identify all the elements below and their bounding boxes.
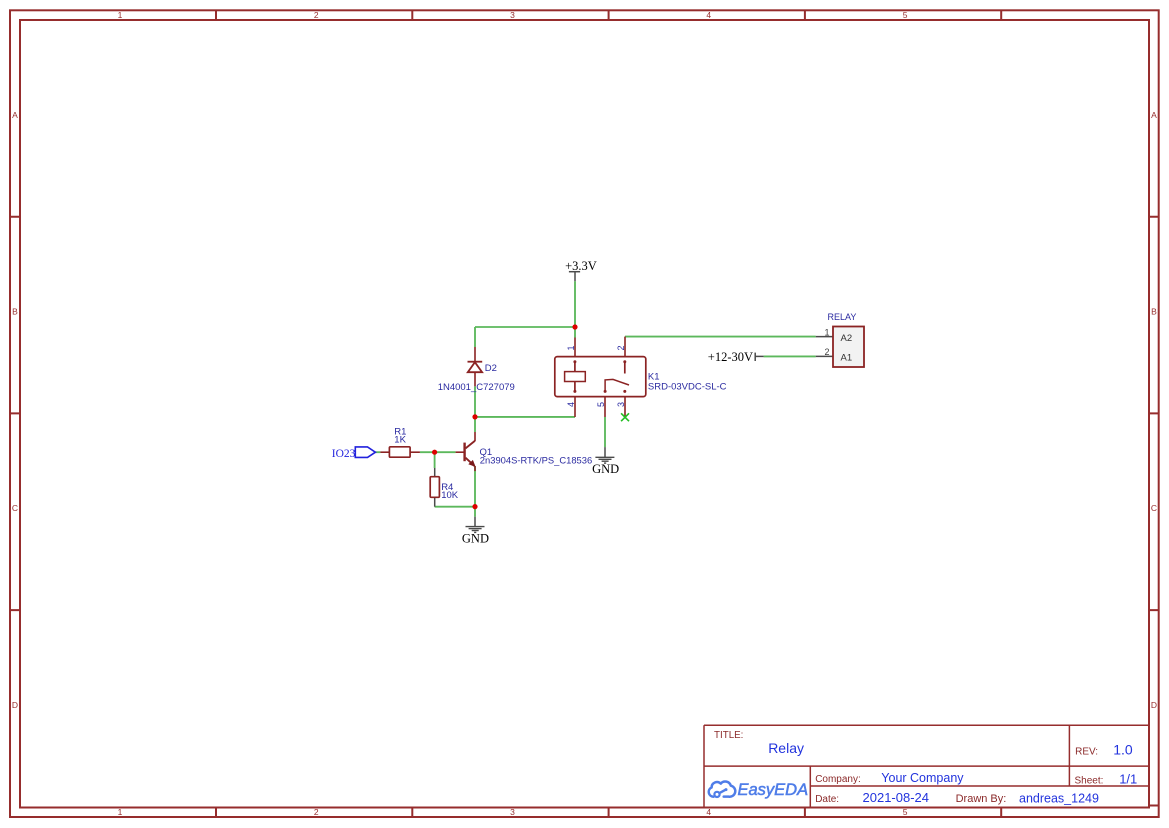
svg-text:2: 2 [824,347,829,357]
svg-text:1: 1 [118,10,123,20]
svg-text:3: 3 [616,402,626,407]
svg-text:1K: 1K [394,435,406,446]
svg-text:2: 2 [314,10,319,20]
svg-text:GND: GND [462,532,489,546]
svg-text:A2: A2 [841,333,853,344]
svg-text:D: D [1151,700,1157,710]
svg-text:A1: A1 [841,353,853,364]
svg-text:1.0: 1.0 [1113,741,1133,757]
svg-text:Date:: Date: [815,794,839,805]
svg-text:4: 4 [566,402,576,407]
svg-text:EasyEDA: EasyEDA [738,781,809,799]
svg-text:5: 5 [596,402,606,407]
svg-text:2021-08-24: 2021-08-24 [863,790,930,805]
svg-text:+12-30V: +12-30V [708,350,753,364]
svg-text:D2: D2 [485,363,497,374]
svg-text:C: C [12,503,18,513]
svg-text:Drawn By:: Drawn By: [956,793,1007,805]
svg-text:4: 4 [706,10,711,20]
svg-text:1N4001_C727079: 1N4001_C727079 [438,382,515,393]
svg-text:TITLE:: TITLE: [714,730,743,741]
svg-text:5: 5 [903,10,908,20]
svg-text:2: 2 [314,807,319,817]
svg-text:2n3904S-RTK/PS_C18536: 2n3904S-RTK/PS_C18536 [480,454,592,465]
svg-text:A: A [1151,110,1157,120]
svg-text:D: D [12,700,18,710]
svg-text:3: 3 [510,10,515,20]
svg-text:10K: 10K [441,490,459,501]
svg-text:IO23: IO23 [332,448,356,460]
svg-text:2: 2 [616,345,626,350]
svg-text:1/1: 1/1 [1119,771,1137,786]
svg-text:1: 1 [566,345,576,350]
svg-text:B: B [12,307,18,317]
svg-text:B: B [1151,307,1157,317]
svg-text:1: 1 [118,807,123,817]
svg-text:C: C [1151,503,1157,513]
svg-text:3: 3 [510,807,515,817]
svg-text:1: 1 [824,327,829,337]
svg-text:A: A [12,110,18,120]
svg-text:SRD-03VDC-SL-C: SRD-03VDC-SL-C [648,382,727,393]
svg-text:5: 5 [903,807,908,817]
svg-text:andreas_1249: andreas_1249 [1019,791,1099,805]
svg-text:Sheet:: Sheet: [1075,776,1104,787]
svg-text:Company:: Company: [815,774,861,785]
svg-text:GND: GND [592,462,619,476]
svg-text:REV:: REV: [1075,747,1098,758]
svg-text:Relay: Relay [768,740,804,756]
svg-text:Your Company: Your Company [881,771,964,785]
svg-text:RELAY: RELAY [828,312,857,322]
svg-text:4: 4 [706,807,711,817]
svg-text:+3.3V: +3.3V [565,259,597,273]
